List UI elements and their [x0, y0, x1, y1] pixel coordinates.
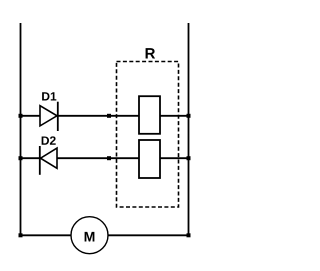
- label R: [146, 48, 156, 58]
- node right rail / bottom wire: [187, 233, 191, 237]
- node left rail / D1 wire: [19, 114, 23, 118]
- label D2: [42, 136, 56, 144]
- wire bottom: [21, 234, 189, 236]
- resistor upper rectangle: [139, 96, 160, 134]
- label M: [85, 232, 95, 242]
- node right rail / D2 wire: [187, 156, 191, 160]
- wire right rail: [188, 23, 190, 235]
- diode D1: [40, 102, 58, 131]
- resistor lower rectangle: [139, 140, 160, 178]
- dashed box R: [117, 62, 179, 208]
- wire D2 row: [21, 157, 189, 159]
- motor M: [71, 217, 108, 254]
- node left rail / bottom wire: [19, 233, 23, 237]
- wire D1 row: [21, 115, 189, 117]
- node left rail / D2 wire: [19, 156, 23, 160]
- wire left rail: [20, 23, 22, 235]
- node right rail / D1 wire: [187, 114, 191, 118]
- node D2 wire terminal: [107, 156, 111, 160]
- label D1: [42, 92, 56, 100]
- node D1 wire terminal: [107, 114, 111, 118]
- diode D2: [40, 146, 57, 175]
